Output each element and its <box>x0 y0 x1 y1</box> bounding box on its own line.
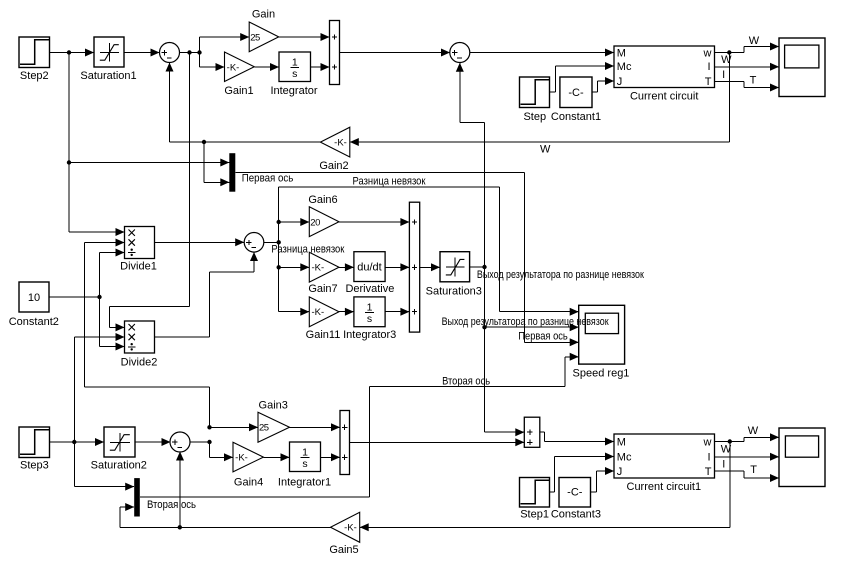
sum Sum3 residual difference <box>244 233 264 253</box>
svg-text:s: s <box>292 68 297 80</box>
svg-text:Выход результатора по разнице: Выход результатора по разнице невязок <box>442 316 609 328</box>
wire Step2 to Saturation1 <box>50 49 95 57</box>
wire to Mux2 input 2 <box>120 503 134 527</box>
svg-text:Разница невязок: Разница невязок <box>353 176 426 188</box>
junction to Gain6 <box>277 220 281 224</box>
junction Sum1 output to cross feedback <box>187 50 191 54</box>
wire Constant2 output <box>49 296 100 298</box>
svg-text:Saturation1: Saturation1 <box>80 70 136 82</box>
block Integrator1 1/s <box>278 442 331 489</box>
wire Gain1 to Integrator <box>254 63 279 71</box>
svg-text:Разница невязок: Разница невязок <box>271 244 344 256</box>
svg-text:1: 1 <box>367 301 373 313</box>
wire Constant3 to Current circuit1 J <box>591 467 615 492</box>
wire Sum3 output <box>264 241 279 243</box>
svg-text:M: M <box>617 437 626 449</box>
svg-text:I: I <box>722 459 725 471</box>
wire Gain5 to Sum5 minus and Mux2 <box>120 526 331 528</box>
wire branch to Mux Первая ось input 2 <box>204 142 229 186</box>
wire Mux output Первая ось to Speed reg1 input 3 <box>235 173 578 347</box>
svg-text:Saturation3: Saturation3 <box>426 286 482 298</box>
block Current circuit1 <box>614 434 715 493</box>
gain Gain7 <box>308 252 339 295</box>
junction Step2 output <box>67 50 71 54</box>
junction Saturation3 output <box>482 265 486 269</box>
svg-text:W: W <box>749 35 760 47</box>
block Constant1 <box>551 77 601 123</box>
wire Gain3 to SumBlock2 <box>290 423 341 431</box>
junction to Gain7 <box>277 265 281 269</box>
svg-text:J: J <box>617 466 623 478</box>
wire Gain4 to Integrator1 <box>263 453 289 461</box>
svg-text:Gain3: Gain3 <box>259 400 288 412</box>
gain Gain1 <box>224 52 254 97</box>
sum Sum6 <box>524 417 540 447</box>
wire Разница невязок to Speed reg1 input 1 <box>279 187 579 316</box>
block Divide2 <box>121 321 158 369</box>
sum SumBlock2 vertical <box>340 411 350 475</box>
wire regulator output to Speed reg1 input 2 <box>485 267 579 331</box>
wire error up to Divide1 input 2 <box>85 239 210 428</box>
wire Sum2 to Current circuit M <box>470 49 614 57</box>
wire SumBlock2 to Sum6 input 2 <box>350 438 525 446</box>
svg-text:Первая ось: Первая ось <box>518 331 568 343</box>
wire Constant1 to Current circuit J <box>592 77 614 92</box>
svg-text:-C-: -C- <box>568 87 584 99</box>
wire to Gain3 <box>210 423 259 431</box>
svg-text:-K-: -K- <box>344 523 357 534</box>
wire up to Sum5 minus input <box>176 452 184 528</box>
svg-text:Constant3: Constant3 <box>551 509 601 521</box>
wire Sum1 to Gain1 <box>200 53 225 72</box>
svg-text:M: M <box>617 48 626 60</box>
wire Current circuit1 w to Scope1 input 1, label W <box>715 425 780 441</box>
block Divide1 <box>120 227 157 273</box>
svg-text:Gain7: Gain7 <box>308 283 337 295</box>
svg-text:25: 25 <box>250 32 260 43</box>
gain Gain5 <box>329 512 359 556</box>
wire Sum4 to Saturation3 <box>420 263 440 271</box>
wire W feedback to Gain2, label W <box>350 53 730 156</box>
wire Derivative to Sum4 <box>385 263 409 271</box>
svg-text:1: 1 <box>292 56 298 68</box>
gain Gain value 25 <box>249 8 279 51</box>
wire to Gain6 <box>279 218 310 226</box>
sum SumBlock1 vertical <box>330 21 340 85</box>
svg-text:Divide2: Divide2 <box>121 357 158 369</box>
svg-text:10: 10 <box>28 292 40 304</box>
svg-text:Integrator: Integrator <box>270 85 317 97</box>
block Step3 <box>19 427 50 472</box>
svg-text:Step2: Step2 <box>20 70 49 82</box>
wire Sum6 to Current circuit1 M <box>540 432 614 445</box>
svg-text:w: w <box>703 437 712 449</box>
wire Saturation1 to Sum1 <box>124 49 160 57</box>
svg-text:du/dt: du/dt <box>357 262 381 274</box>
wire Saturation3 output <box>470 266 485 268</box>
block Scope <box>779 38 825 97</box>
junction w1 output <box>728 439 732 443</box>
svg-text:I: I <box>722 69 725 81</box>
wire to Gain4 <box>210 442 234 461</box>
mux Первая ось <box>229 153 235 192</box>
wire to Gain11 <box>279 308 310 316</box>
wire Step3 branch up to Divide2 input 2 <box>74 333 124 442</box>
gain Gain4 <box>233 442 263 488</box>
wire Current circuit1 I to Scope1 input 2 <box>715 453 780 461</box>
wire Current circuit w to Scope input 1, label W <box>715 35 780 52</box>
sum Sum5 <box>170 432 190 452</box>
svg-text:20: 20 <box>310 217 320 228</box>
wire Step1 to Current circuit1 Mc <box>550 453 615 492</box>
wire Sum5 output <box>190 441 210 443</box>
svg-text:T: T <box>750 464 757 476</box>
block Saturation3 <box>426 252 482 298</box>
junction Step3 output <box>72 440 76 444</box>
wire Step2 branch down to Divide1 input 1 <box>69 53 125 237</box>
svg-text:Gain: Gain <box>252 8 275 20</box>
wire Constant2 to Divide1 input 3 <box>100 249 125 298</box>
svg-text:Constant1: Constant1 <box>551 111 601 123</box>
svg-text:s: s <box>302 458 307 470</box>
svg-text:Divide1: Divide1 <box>120 260 157 272</box>
svg-text:Derivative: Derivative <box>345 283 394 295</box>
svg-text:s: s <box>367 313 372 325</box>
svg-text:Gain1: Gain1 <box>224 85 253 97</box>
block Saturation1 <box>80 37 136 82</box>
svg-text:-K-: -K- <box>235 453 248 464</box>
gain Gain6 value 20 <box>308 194 339 237</box>
junction to Gain3 <box>207 425 211 429</box>
wire Constant2 to Divide2 input 3 <box>100 297 125 351</box>
junction Sum3 distribution <box>277 240 281 244</box>
wire to Gain7 <box>279 263 310 271</box>
svg-text:-K-: -K- <box>334 138 347 149</box>
wire Sum1 error down to Divide2 input 1 <box>110 53 190 332</box>
svg-text:Speed reg1: Speed reg1 <box>573 368 630 380</box>
wire Step to Current circuit Mc <box>550 62 615 92</box>
gain Gain11 <box>306 297 341 341</box>
svg-text:Gain5: Gain5 <box>329 544 358 556</box>
svg-text:Первая ось: Первая ось <box>242 173 294 185</box>
svg-text:Gain11: Gain11 <box>306 329 341 341</box>
wire Gain7 to Derivative <box>339 263 354 271</box>
wire regulator output down to Sum6 input 1 <box>485 327 525 436</box>
wire Step3 to Saturation2 <box>50 438 105 446</box>
gain Gain3 value 25 <box>258 400 290 443</box>
svg-text:Saturation2: Saturation2 <box>91 460 147 472</box>
svg-text:Integrator3: Integrator3 <box>343 329 396 341</box>
block Speed reg1 <box>573 305 630 379</box>
wire Sum1 to Gain <box>200 33 250 53</box>
block Integrator 1/s <box>270 52 317 97</box>
svg-text:Mc: Mc <box>617 451 632 463</box>
wire Integrator to Sum block plus 2 <box>311 63 330 71</box>
sum Sum1 <box>160 43 180 63</box>
wire Gain6 to Sum4 <box>339 218 409 226</box>
mux Вторая ось <box>134 478 140 516</box>
svg-text:Вторая ось: Вторая ось <box>442 375 490 387</box>
wire distribution vertical <box>278 187 280 312</box>
wire Mux2 output Вторая ось to Speed reg1 input 4 <box>140 353 579 497</box>
wire Gain11 to Integrator3 <box>339 308 354 316</box>
svg-text:-K-: -K- <box>227 62 240 73</box>
block Constant3 <box>551 478 601 521</box>
svg-text:Выход результатора по разнице: Выход результатора по разнице невязок <box>477 269 644 281</box>
wire Integrator3 to Sum4 <box>385 308 409 316</box>
svg-text:Gain6: Gain6 <box>308 194 337 206</box>
block Constant2 value 10 <box>9 282 59 328</box>
junction Sum1 output branch <box>197 50 201 54</box>
svg-text:w: w <box>703 48 712 60</box>
wire Gain to Sum block plus 1 <box>279 33 330 41</box>
svg-text:Step: Step <box>523 111 546 123</box>
svg-text:Gain2: Gain2 <box>319 160 348 172</box>
wire regulator output up to Sum2 minus input <box>456 63 485 267</box>
gain Gain2 <box>319 127 349 172</box>
svg-text:-K-: -K- <box>311 263 324 274</box>
svg-text:W: W <box>748 425 759 437</box>
wire Current circuit I to Scope input 2 <box>715 63 780 71</box>
wire Divide1 to Sum3 <box>155 238 245 246</box>
svg-text:T: T <box>750 74 757 86</box>
svg-text:I: I <box>707 451 710 463</box>
wire Current circuit T to Scope input 3, label T <box>715 74 780 91</box>
block Current circuit <box>614 46 715 103</box>
svg-text:Вторая ось: Вторая ось <box>147 499 196 511</box>
junction Sum5 output <box>207 440 211 444</box>
svg-text:25: 25 <box>259 423 269 434</box>
block Integrator3 1/s <box>343 297 396 341</box>
svg-text:J: J <box>617 76 623 88</box>
svg-text:Integrator1: Integrator1 <box>278 477 331 489</box>
block Scope1 <box>779 428 825 487</box>
svg-text:Mc: Mc <box>617 61 632 73</box>
sum Sum4 vertical PID <box>409 202 419 332</box>
block Step <box>520 77 550 123</box>
block Step2 <box>19 37 50 82</box>
wire SumBlock1 to Sum2 <box>340 49 451 57</box>
svg-text:W: W <box>540 143 551 155</box>
svg-text:Current circuit: Current circuit <box>630 91 698 103</box>
wire Gain2 to Sum1 minus input <box>166 63 321 143</box>
sum Sum2 <box>450 43 470 63</box>
svg-text:-K-: -K- <box>311 307 324 318</box>
wire Current circuit1 T to Scope1 input 3, label T <box>715 464 780 482</box>
svg-text:Current circuit1: Current circuit1 <box>627 481 702 493</box>
junction Gain5 output <box>178 525 182 529</box>
svg-text:Constant2: Constant2 <box>9 316 59 328</box>
junction Gain2 wire to Mux <box>202 140 206 144</box>
wire Sum1 output <box>180 52 200 54</box>
svg-text:T: T <box>705 466 712 478</box>
svg-text:Step3: Step3 <box>20 460 49 472</box>
block Step1 <box>520 478 550 521</box>
svg-text:Gain4: Gain4 <box>234 477 263 489</box>
wire Step2 branch to Mux Первая ось input 1 <box>69 159 229 167</box>
svg-text:T: T <box>705 76 712 88</box>
wire Integrator1 to SumBlock2 <box>321 453 341 461</box>
svg-text:1: 1 <box>302 446 308 458</box>
block Derivative du/dt <box>345 252 394 296</box>
svg-text:Step1: Step1 <box>520 509 549 521</box>
junction to Speed reg1 input 2 <box>482 325 486 329</box>
svg-text:W: W <box>721 54 732 66</box>
block Saturation2 <box>91 427 147 472</box>
wire Step3 branch down to Mux2 input 1 <box>74 442 134 491</box>
junction Step2 branch to Mux first axis <box>67 160 71 164</box>
svg-text:-C-: -C- <box>567 487 583 499</box>
wire Saturation2 to Sum5 <box>135 438 171 446</box>
junction Constant2 branch <box>97 295 101 299</box>
wire Divide2 up to Sum3 minus input <box>155 252 259 337</box>
junction w output <box>727 50 731 54</box>
wire W2 feedback to Gain5 <box>360 442 730 532</box>
svg-text:I: I <box>707 61 710 73</box>
